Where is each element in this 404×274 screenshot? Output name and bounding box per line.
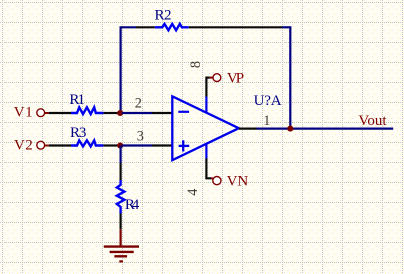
pin number 8 <box>188 61 204 68</box>
pin 8 stub <box>205 97 207 113</box>
svg-text:V2: V2 <box>14 138 33 154</box>
resistor R2 <box>155 7 189 30</box>
svg-text:2: 2 <box>135 96 142 112</box>
ground <box>104 229 139 261</box>
pin 1 output lead <box>239 128 257 130</box>
junction node pin2 <box>117 110 123 116</box>
svg-text:R4: R4 <box>125 197 140 213</box>
pin number 4 <box>185 189 201 196</box>
wire R4 to ground <box>119 214 121 230</box>
svg-text:U?A: U?A <box>254 93 282 109</box>
wire feedback top horizontal <box>120 26 292 28</box>
wire feedback left vertical <box>119 27 121 113</box>
svg-text:R2: R2 <box>155 7 172 23</box>
wire node to R4 <box>119 146 121 181</box>
resistor R1 <box>69 92 103 114</box>
wire feedback right vertical <box>289 27 291 128</box>
junction node pin3 <box>117 142 123 148</box>
wire V2 to R3 <box>49 144 71 146</box>
net label Vout <box>358 113 387 129</box>
svg-text:8: 8 <box>188 61 204 68</box>
svg-text:R1: R1 <box>69 92 85 108</box>
junction node output <box>287 126 293 132</box>
wire R3 to node <box>103 144 118 146</box>
wire R1 to node <box>103 112 118 114</box>
op-amp U?A <box>172 93 281 160</box>
pin number 3 <box>137 128 144 144</box>
svg-text:VP: VP <box>227 70 244 86</box>
wire node to pin 3 <box>122 144 173 146</box>
svg-text:4: 4 <box>185 189 201 196</box>
wire V1 to R1 <box>49 112 71 114</box>
pin number 1 <box>263 113 270 129</box>
pin 4 stub <box>205 144 207 158</box>
power port VP <box>210 70 244 86</box>
wire node to pin 2 <box>122 112 173 114</box>
pin number 2 <box>135 96 142 112</box>
wire output <box>257 128 394 130</box>
power port V1 <box>14 105 49 121</box>
svg-text:Vout: Vout <box>358 113 387 129</box>
svg-text:V1: V1 <box>14 105 33 121</box>
svg-text:R3: R3 <box>70 125 86 141</box>
svg-text:3: 3 <box>137 128 144 144</box>
wire VP to pin 8 <box>206 78 209 97</box>
power port VN <box>211 174 248 190</box>
resistor R3 <box>70 125 103 146</box>
power port V2 <box>14 138 49 154</box>
resistor R4 <box>117 180 140 214</box>
wire VN to pin 4 <box>206 159 211 179</box>
svg-text:VN: VN <box>227 174 249 190</box>
svg-text:1: 1 <box>263 113 270 129</box>
